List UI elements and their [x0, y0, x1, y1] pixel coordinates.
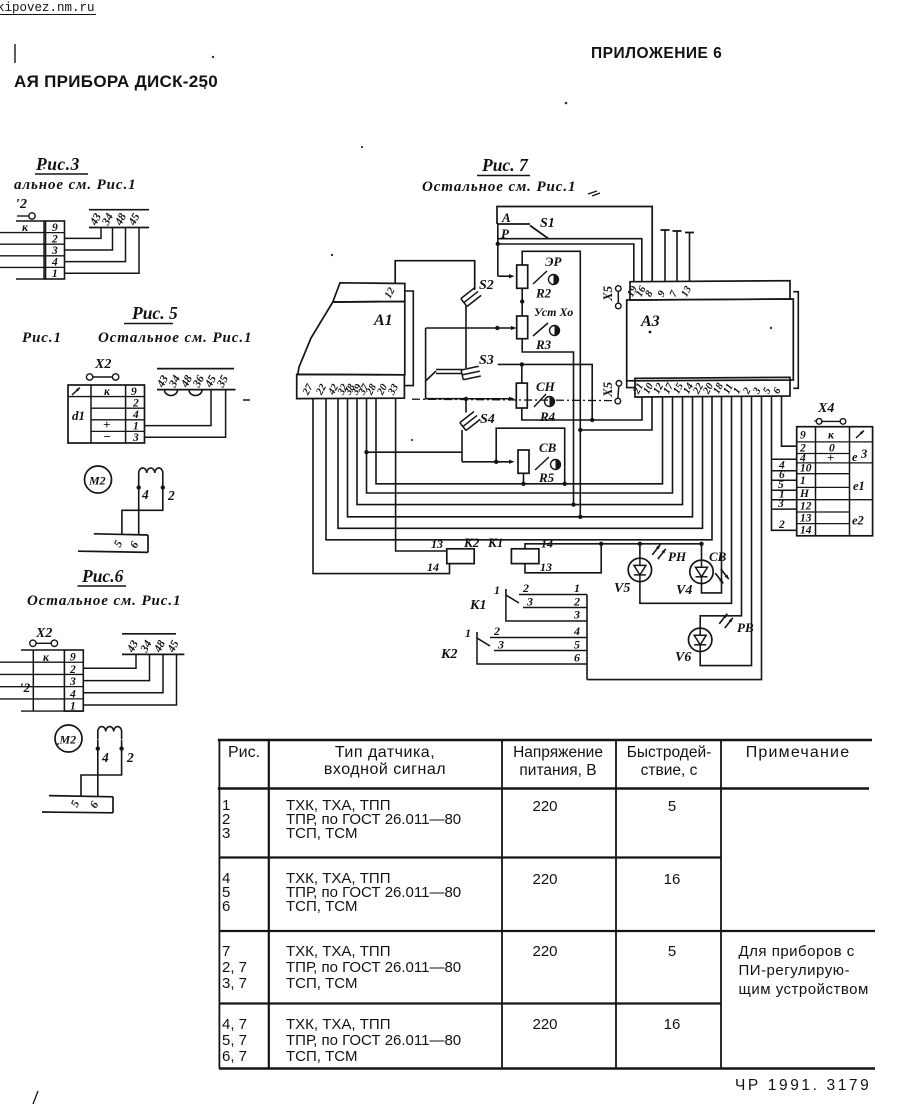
switch S2 symbol — [461, 288, 481, 307]
switch S1 blade — [530, 226, 549, 240]
X4 stub row4 — [772, 458, 797, 460]
connector table Рис.6 — [0, 650, 83, 711]
svg-text:4, 7: 4, 7 — [222, 1016, 247, 1033]
wire R5 top box — [496, 428, 565, 484]
svg-text:3: 3 — [573, 608, 580, 622]
svg-text:V5: V5 — [614, 581, 630, 596]
svg-text:Уст Хо: Уст Хо — [534, 305, 573, 319]
svg-text:АЯ ПРИБОРА ДИСК-250: АЯ ПРИБОРА ДИСК-250 — [14, 72, 218, 91]
svg-text:12: 12 — [383, 285, 398, 300]
wire bundle U1 A1p22 to A3p20 — [326, 397, 712, 540]
svg-text:А3: А3 — [640, 313, 660, 330]
svg-text:−: − — [103, 429, 111, 444]
K1 blade — [506, 589, 519, 603]
svg-text:4: 4 — [69, 689, 76, 701]
svg-text:Рис.3: Рис.3 — [35, 154, 80, 174]
node junction on R3 feed — [495, 326, 499, 330]
node R5 box to bundle — [563, 482, 567, 486]
R2 knob — [549, 275, 559, 285]
X4 arrow glyph — [856, 429, 865, 438]
svg-text:220: 220 — [532, 1016, 557, 1033]
svg-text:2: 2 — [126, 750, 134, 765]
svg-text:3: 3 — [777, 498, 784, 510]
table row1 — [222, 797, 676, 842]
svg-text:Остальное см. Рис.1: Остальное см. Рис.1 — [422, 179, 576, 195]
X4 stub row12 label 1 — [772, 489, 797, 501]
chassis dash-dot line — [412, 399, 612, 400]
svg-text:4: 4 — [573, 624, 580, 638]
node R2-R3 junction — [520, 299, 524, 303]
svg-text:2: 2 — [573, 595, 580, 609]
wire R5 wiper feed — [462, 460, 515, 464]
svg-text:9: 9 — [800, 430, 806, 442]
svg-text:2: 2 — [522, 581, 529, 595]
wire pin3 to 34 — [83, 654, 149, 680]
table row separators — [219, 858, 721, 1004]
wire R5 bottom to bundle — [523, 473, 525, 484]
wire P branch to A3 pin21 — [498, 364, 642, 420]
svg-text:3: 3 — [497, 638, 504, 652]
block A3 right outer edge — [793, 292, 798, 389]
A3 top pin labels 19 16 8 9 7 13 — [625, 284, 694, 299]
wire S4 row feed from A1 pin39 — [367, 451, 463, 453]
switch S3 blade — [426, 371, 436, 381]
svg-text:3: 3 — [132, 432, 139, 444]
pin labels 9 2 3 4 1 — [69, 652, 76, 713]
svg-text:Рис. 5: Рис. 5 — [131, 303, 178, 323]
node dot pin4 — [137, 485, 141, 489]
svg-text:45: 45 — [165, 638, 182, 655]
R3 knob — [550, 326, 560, 336]
X4 stub row10 label 4 — [772, 460, 797, 472]
svg-text:А1: А1 — [373, 312, 393, 329]
K1 row 2 — [523, 595, 587, 609]
svg-text:Тип датчика,: Тип датчика, — [335, 744, 435, 761]
switch S3 symbol — [436, 366, 481, 380]
connector X5 bottom pins — [615, 381, 622, 404]
net label bar Рис.5 — [157, 369, 236, 390]
node R3 loop to bundle — [571, 502, 575, 506]
svg-text:ПИ-регулирую-: ПИ-регулирую- — [739, 962, 850, 979]
svg-text:27: 27 — [300, 382, 315, 398]
wire V6 top to A3 pin1 — [700, 397, 741, 628]
svg-text:R2: R2 — [535, 286, 552, 301]
node on pin39 wire — [364, 450, 368, 454]
svg-text:ТХК, ТХА, ТПП: ТХК, ТХА, ТПП — [286, 1016, 390, 1033]
svg-text:Для приборов с: Для приборов с — [739, 943, 855, 960]
svg-text:1: 1 — [574, 581, 580, 595]
svg-text:9: 9 — [131, 386, 137, 398]
switch S4 symbol — [460, 399, 480, 430]
pin labels 9 2 4 1 3 — [131, 386, 139, 444]
svg-text:К2: К2 — [440, 647, 458, 662]
node dot pin4 — [96, 746, 100, 750]
svg-text:ТСП, ТСМ: ТСП, ТСМ — [286, 975, 357, 992]
svg-text:1: 1 — [800, 475, 806, 487]
svg-text:16: 16 — [664, 1016, 681, 1033]
svg-text:33: 33 — [386, 382, 401, 397]
wire P vertical to R2 wiper — [498, 224, 515, 278]
wire R2 bottom to R3 top — [521, 288, 523, 316]
svg-text:12: 12 — [800, 501, 812, 513]
wire coil right down — [122, 481, 163, 535]
svg-text:S3: S3 — [479, 353, 494, 368]
svg-text:14: 14 — [800, 525, 812, 537]
K2 blade — [477, 632, 490, 646]
net labels 43 34 48 45 — [125, 638, 182, 655]
svg-text:220: 220 — [532, 798, 557, 815]
block A3 body — [627, 299, 794, 381]
wire R4 top — [521, 364, 523, 383]
switch S1 terminal A — [497, 210, 530, 225]
wire coil left down — [138, 481, 140, 535]
node P junction — [496, 242, 500, 246]
wire A1 pin27 to K2 coil — [313, 399, 450, 574]
svg-text:8: 8 — [643, 288, 656, 298]
svg-text:К1: К1 — [487, 535, 503, 550]
cut-off edge tick — [14, 44, 16, 63]
T-stub antenna pins 9 7 13 — [661, 230, 695, 281]
resistor R2 — [517, 265, 528, 288]
svg-text:3: 3 — [51, 245, 58, 257]
svg-text:М2: М2 — [88, 474, 106, 488]
R4 knob — [545, 397, 555, 407]
svg-text:X4: X4 — [817, 401, 834, 416]
svg-text:1: 1 — [465, 626, 471, 640]
node K1 loop junction — [599, 542, 603, 546]
block A3 top pin strip — [630, 281, 790, 300]
wire A1 pin12 to S2 — [395, 261, 475, 288]
svg-text:2: 2 — [493, 624, 500, 638]
svg-text:входной сигнал: входной сигнал — [324, 761, 446, 778]
svg-text:питания, В: питания, В — [519, 762, 596, 779]
svg-text:щим устройством: щим устройством — [739, 981, 869, 998]
wire P line to A3 pin16 — [498, 239, 642, 282]
svg-text:3: 3 — [222, 825, 230, 842]
stray scribble — [588, 191, 600, 196]
connector bar 5 6 — [78, 534, 148, 553]
svg-text:5: 5 — [574, 638, 580, 652]
svg-text:13: 13 — [540, 560, 552, 574]
svg-text:16: 16 — [664, 871, 681, 888]
A3 bottom pin labels — [631, 381, 784, 397]
block A3 bottom pin strip — [635, 377, 790, 397]
terminal table d1 — [68, 385, 145, 443]
svg-text:6: 6 — [128, 539, 141, 550]
svg-text:2: 2 — [69, 664, 76, 676]
block A1 body — [298, 302, 405, 375]
svg-text:2: 2 — [132, 397, 139, 409]
svg-text:5: 5 — [668, 943, 676, 960]
svg-text:S1: S1 — [540, 216, 555, 231]
wire branch to A3 pin10 — [580, 397, 652, 430]
wire bundle U5 A1p39 to A3p17 — [367, 397, 673, 493]
svg-text:ЭР: ЭР — [545, 254, 562, 269]
svg-text:Быстродей-: Быстродей- — [627, 744, 712, 761]
svg-text:ПРИЛОЖЕНИЕ 6: ПРИЛОЖЕНИЕ 6 — [591, 45, 722, 62]
wire A3 pin6 to X4 row2 — [782, 397, 797, 447]
net labels 43 34 48 36 45 35 — [155, 373, 232, 390]
svg-text:14: 14 — [427, 560, 439, 574]
K1 row 1 — [519, 581, 587, 595]
K2 row 5 — [494, 638, 587, 652]
figure label Рис.6 — [78, 566, 127, 586]
svg-text:13: 13 — [431, 537, 443, 551]
table row2 — [222, 870, 680, 915]
connector bar 5 6 — [42, 796, 113, 813]
svg-text:К1: К1 — [469, 598, 487, 613]
wire K1 bottom loop — [525, 544, 601, 573]
svg-text:СН: СН — [536, 379, 556, 394]
svg-text:альное см. Рис.1: альное см. Рис.1 — [14, 177, 137, 193]
svg-text:X5: X5 — [600, 285, 615, 302]
K2 row 6 — [477, 638, 587, 665]
wire A3 pin5 feed vertical — [772, 397, 797, 531]
arrow glyph in d1 cell — [72, 386, 81, 395]
footer slash mark — [33, 1091, 38, 1104]
V6 emission arrows — [719, 614, 727, 624]
wire A1 pin12 side jog — [405, 291, 414, 386]
wire R4 bottom to pin21 line — [522, 408, 592, 420]
table row3 — [222, 943, 869, 998]
svg-text:е1: е1 — [853, 479, 865, 493]
svg-text:Рис.1: Рис.1 — [22, 330, 62, 346]
svg-text:R5: R5 — [538, 470, 555, 485]
stray dash — [243, 399, 250, 401]
svg-text:М2: М2 — [59, 733, 77, 747]
wire R3 bottom loop to bundle — [522, 339, 573, 505]
wire pin4 to 48 — [65, 228, 126, 262]
pin labels 9 2 3 4 1 — [51, 222, 58, 280]
svg-text:6: 6 — [222, 898, 230, 915]
net labels 43 34 48 45 — [88, 211, 143, 228]
svg-text:1: 1 — [133, 421, 139, 433]
svg-text:S2: S2 — [479, 278, 494, 293]
svg-text:2: 2 — [51, 234, 58, 246]
connector X5 top pins — [616, 286, 622, 309]
wire bundle U4 A1p38 to A3p15 — [357, 397, 683, 505]
svg-text:9: 9 — [70, 652, 76, 664]
svg-text:5, 7: 5, 7 — [222, 1032, 247, 1049]
node R2 loop to bundle — [578, 515, 582, 519]
resistor R3 — [517, 316, 528, 339]
figure label Рис.5 — [124, 303, 178, 324]
svg-text:СВ: СВ — [539, 440, 557, 455]
block A1 top pin box — [333, 283, 405, 302]
node branch junction — [578, 428, 582, 432]
wire V4 bottom to A3 pin18 — [702, 397, 722, 593]
svg-text:9: 9 — [656, 288, 669, 298]
svg-text:+: + — [827, 451, 834, 465]
svg-text:S4: S4 — [480, 412, 495, 427]
wire minus to 35 — [145, 390, 226, 438]
svg-text:СВ: СВ — [709, 549, 727, 564]
wire pin4 to 48 — [83, 654, 163, 692]
svg-text:4: 4 — [101, 750, 109, 765]
svg-text:220: 220 — [532, 871, 557, 888]
svg-text:4: 4 — [141, 487, 149, 502]
A3 label dot — [649, 331, 652, 334]
net label bar Рис.3 — [89, 210, 149, 228]
svg-text:4: 4 — [51, 257, 58, 269]
wire loop bottom to R4 line — [426, 381, 466, 399]
wire with circle terminal — [17, 213, 35, 219]
svg-text:К2: К2 — [463, 535, 480, 550]
svg-text:3, 7: 3, 7 — [222, 975, 247, 992]
node V5 top — [638, 542, 642, 546]
svg-text:5: 5 — [668, 798, 676, 815]
A3 left edge jog to strip — [627, 381, 635, 388]
svg-text:ТХК, ТХА, ТПП: ТХК, ТХА, ТПП — [286, 943, 390, 960]
svg-text:Остальное см. Рис.1: Остальное см. Рис.1 — [27, 593, 181, 609]
svg-text:3: 3 — [526, 595, 533, 609]
svg-text:2, 7: 2, 7 — [222, 959, 247, 976]
svg-text:35: 35 — [215, 373, 232, 390]
wire pin1 to 45 — [65, 228, 140, 274]
wire A1 pin33 to K2 coil top — [396, 399, 447, 551]
svg-text:е2: е2 — [852, 514, 864, 528]
svg-text:X2: X2 — [94, 357, 111, 372]
svg-text:X2: X2 — [35, 626, 52, 641]
svg-text:Напряжение: Напряжение — [513, 744, 603, 761]
wire pin3 to 34 — [65, 228, 113, 251]
wire S3 loop to R3 wiper line — [425, 328, 427, 381]
svg-text:5: 5 — [69, 798, 82, 809]
table row4 — [222, 1016, 680, 1065]
svg-text:V6: V6 — [675, 650, 691, 665]
svg-text:ЧР 1991. 3179: ЧР 1991. 3179 — [735, 1077, 871, 1094]
wire coil right down — [81, 740, 122, 796]
svg-text:7: 7 — [222, 943, 230, 960]
X4 label е3 — [852, 447, 867, 464]
svg-text:ТПР, по ГОСТ 26.011—80: ТПР, по ГОСТ 26.011—80 — [286, 1032, 461, 1049]
figure label Рис.7 — [477, 155, 530, 176]
svg-text:Н: Н — [799, 488, 810, 500]
svg-text:Рис.: Рис. — [228, 744, 260, 761]
resistor R5 — [518, 450, 529, 473]
node R5 bottom junction — [521, 482, 525, 486]
X4 pin labels — [799, 430, 812, 537]
X4 stub rowН label 5 — [772, 479, 797, 491]
R4 wiper arrow — [466, 397, 515, 401]
V5 emission arrows — [652, 545, 660, 555]
svg-text:к: к — [828, 430, 835, 442]
contact ladder right vertical — [586, 595, 588, 680]
svg-text:3: 3 — [69, 676, 76, 688]
relay coil K2 — [447, 549, 474, 564]
table outer borders — [218, 740, 875, 1069]
svg-text:1: 1 — [494, 583, 500, 597]
K1 row 3 — [506, 595, 587, 622]
node dot pin2 — [161, 485, 165, 489]
svg-text:6: 6 — [771, 385, 784, 395]
svg-text:′2: ′2 — [20, 680, 31, 695]
wire R2 top loop to A3 pin10 — [522, 251, 580, 517]
resistor R4 — [516, 383, 527, 408]
svg-text:6: 6 — [88, 799, 101, 810]
svg-text:6: 6 — [574, 651, 580, 665]
X4 stub row13 label 3 — [772, 498, 797, 510]
X4 terminals — [816, 419, 846, 425]
connector table Рис.3 — [0, 221, 65, 279]
switch S4 blade wire — [461, 430, 463, 462]
svg-text:45: 45 — [126, 211, 143, 228]
wire K1 top to lamp line — [525, 544, 702, 549]
svg-text:R3: R3 — [535, 337, 552, 352]
svg-text:Примечание: Примечание — [746, 744, 851, 761]
svg-text:РН: РН — [668, 549, 687, 564]
svg-text:ТПР, по ГОСТ 26.011—80: ТПР, по ГОСТ 26.011—80 — [286, 959, 461, 976]
node S4 top — [464, 397, 468, 401]
svg-text:А: А — [501, 210, 511, 225]
wire pin1 to 45 — [83, 654, 176, 705]
node R4 bottom junction — [590, 418, 594, 422]
X4 middle labels К 0 + — [827, 430, 835, 466]
svg-text:′2: ′2 — [16, 197, 27, 212]
svg-text:kipovez.nm.ru: kipovez.nm.ru — [0, 1, 95, 15]
motor M2 symbol circle — [55, 725, 82, 752]
svg-text:ТСП, ТСМ: ТСП, ТСМ — [286, 898, 357, 915]
R5 knob — [551, 460, 561, 470]
svg-text:Рис. 7: Рис. 7 — [481, 155, 529, 175]
wire ladder bottom to A3 pin3 — [587, 397, 762, 680]
figure label Рис.3 — [35, 154, 88, 174]
node dot pin2 — [119, 746, 123, 750]
svg-text:1: 1 — [70, 701, 76, 713]
speck dots — [43, 56, 816, 745]
motor M2 symbol circle — [85, 466, 112, 493]
R5 adjust slash — [535, 457, 549, 470]
wire R3 wiper feed — [426, 326, 517, 330]
socket arcs — [165, 390, 203, 396]
svg-text:220: 220 — [532, 943, 557, 960]
X4 stub row1 label 6 — [772, 469, 797, 481]
svg-text:X5: X5 — [600, 381, 615, 398]
svg-text:Остальное см. Рис.1: Остальное см. Рис.1 — [98, 330, 252, 346]
block A1 bottom pin strip — [297, 374, 405, 398]
svg-text:3: 3 — [860, 447, 867, 461]
svg-text:ствие, с: ствие, с — [641, 762, 698, 779]
watermark kipovez.nm.ru — [0, 1, 96, 15]
relay coil K1 — [511, 549, 539, 564]
svg-text:5: 5 — [112, 538, 125, 549]
V4 emission arrows — [721, 569, 729, 579]
node R4 top junction — [520, 362, 524, 366]
wire coil left down — [97, 740, 99, 796]
svg-text:d1: d1 — [72, 408, 85, 423]
winding coil — [98, 727, 122, 740]
plus minus labels — [103, 417, 111, 444]
svg-text:V4: V4 — [676, 583, 692, 598]
table column borders — [269, 740, 721, 1069]
node V4 top — [699, 542, 703, 546]
A1 pin labels 27 22 42 32 38 39 37 28 20 33 — [300, 382, 401, 398]
R3 adjust slash — [533, 323, 548, 336]
svg-text:R4: R4 — [539, 409, 556, 424]
svg-text:6, 7: 6, 7 — [222, 1048, 247, 1065]
net label bar Рис.6 — [122, 634, 184, 655]
svg-text:13: 13 — [800, 513, 812, 525]
R4 adjust slash — [534, 394, 546, 407]
svg-text:ТСП, ТСМ: ТСП, ТСМ — [286, 1048, 357, 1065]
X2 terminals — [86, 374, 118, 380]
svg-text:2: 2 — [778, 519, 785, 531]
svg-text:Рис.6: Рис.6 — [81, 566, 124, 586]
wire pin2 to 43 — [83, 654, 136, 668]
wire pin2 to 43 — [65, 228, 102, 239]
wire bundle U2 A1p42 to A3p22 — [338, 397, 703, 529]
svg-text:ТСП, ТСМ: ТСП, ТСМ — [286, 825, 357, 842]
